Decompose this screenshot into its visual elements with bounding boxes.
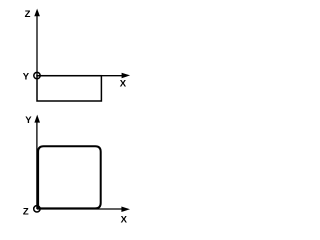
svg-text:X: X [121, 215, 128, 226]
svg-text:X: X [120, 79, 127, 90]
svg-text:Y: Y [23, 72, 30, 83]
svg-text:Z: Z [25, 9, 31, 20]
svg-text:Y: Y [25, 115, 32, 126]
svg-text:Z: Z [23, 207, 29, 218]
